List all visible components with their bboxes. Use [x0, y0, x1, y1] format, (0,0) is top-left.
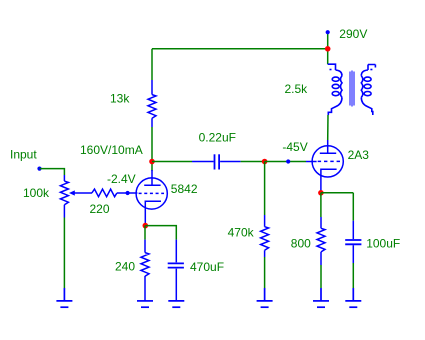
svg-text:-2.4V: -2.4V	[107, 172, 136, 186]
svg-text:800: 800	[291, 237, 311, 251]
wire main row junction to coupling cap	[152, 161, 192, 163]
wire junction to -45V dot to 2A3 grid	[265, 161, 306, 163]
junction 2A3 cathode node	[318, 190, 324, 196]
node -2.4V measurement dot	[126, 191, 130, 195]
wire cap to 470k junction	[241, 161, 265, 163]
node -45V measurement dot	[286, 159, 290, 163]
capacitor C 0.22uF	[192, 154, 241, 169]
ground input pot	[56, 288, 72, 307]
junction top rail / transformer	[325, 46, 331, 52]
svg-text:160V/10mA: 160V/10mA	[80, 143, 143, 157]
wire pot bottom to ground	[63, 218, 65, 289]
core	[350, 71, 351, 105]
svg-text:0.22uF: 0.22uF	[199, 131, 236, 145]
junction 5842 cathode node	[143, 223, 149, 229]
resistor 800	[317, 217, 325, 265]
potentiometer 100k	[60, 175, 92, 218]
svg-text:470uF: 470uF	[190, 260, 224, 274]
node Input measurement dot	[37, 167, 41, 171]
svg-text:5842: 5842	[171, 182, 198, 196]
ground 800	[313, 288, 329, 307]
wire 470k to ground	[264, 257, 266, 288]
capacitor 470uF	[168, 240, 184, 301]
svg-text:100k: 100k	[23, 186, 50, 200]
wire top rail from 13k to 290V node	[152, 48, 328, 50]
ground 100uF	[345, 288, 361, 307]
resistor 240	[141, 240, 149, 301]
wire transformer primary to 2A3 plate	[327, 115, 329, 140]
wire 2A3 cathode to 100uF branch	[321, 192, 353, 194]
wiper arrow	[74, 192, 92, 194]
primary winding	[336, 70, 343, 76]
ground 470k	[257, 288, 273, 307]
capacitor 100uF	[345, 221, 361, 263]
svg-text:-45V: -45V	[282, 140, 307, 154]
wire 13k to plate junction	[151, 127, 153, 171]
secondary winding	[361, 70, 368, 76]
resistor 220 grid stopper	[92, 189, 138, 197]
svg-text:2A3: 2A3	[348, 148, 370, 162]
wire 290V stub	[327, 32, 329, 64]
wire 800 to ground	[320, 265, 322, 288]
wire cathode down to 240	[144, 226, 146, 240]
svg-text:2.5k: 2.5k	[285, 82, 309, 96]
triode U1 5842	[136, 170, 167, 226]
svg-text:Input: Input	[10, 148, 37, 162]
wire 100uF to ground	[352, 263, 354, 288]
node 290V measurement dot	[326, 30, 330, 34]
transformer T1 2.5k output	[328, 64, 376, 115]
ground 240	[137, 301, 153, 307]
resistor 13k	[148, 80, 156, 127]
wire 100uF branch down	[352, 193, 354, 221]
svg-text:13k: 13k	[110, 92, 130, 106]
wire input to pot	[40, 169, 65, 175]
secondary phase dash	[370, 69, 372, 71]
primary phase dash	[330, 69, 332, 71]
svg-text:220: 220	[90, 202, 110, 216]
svg-text:100uF: 100uF	[366, 237, 400, 251]
wire 470k branch down	[264, 162, 266, 216]
resistor 470k	[261, 215, 269, 257]
wire 5842 cathode to 470uF branch	[145, 226, 176, 240]
svg-text:240: 240	[115, 260, 135, 274]
triode U2 2A3	[306, 140, 343, 193]
wire 2A3 cathode down to 800	[320, 193, 322, 217]
junction 470k node	[262, 159, 268, 165]
svg-text:470k: 470k	[228, 225, 255, 239]
svg-text:290V: 290V	[339, 27, 367, 41]
primary top lead	[328, 64, 336, 70]
junction 5842 plate node	[149, 159, 155, 165]
ground 470uF	[168, 301, 184, 307]
secondary top lead	[368, 65, 375, 71]
wire 13k branch down from rail	[151, 49, 153, 80]
